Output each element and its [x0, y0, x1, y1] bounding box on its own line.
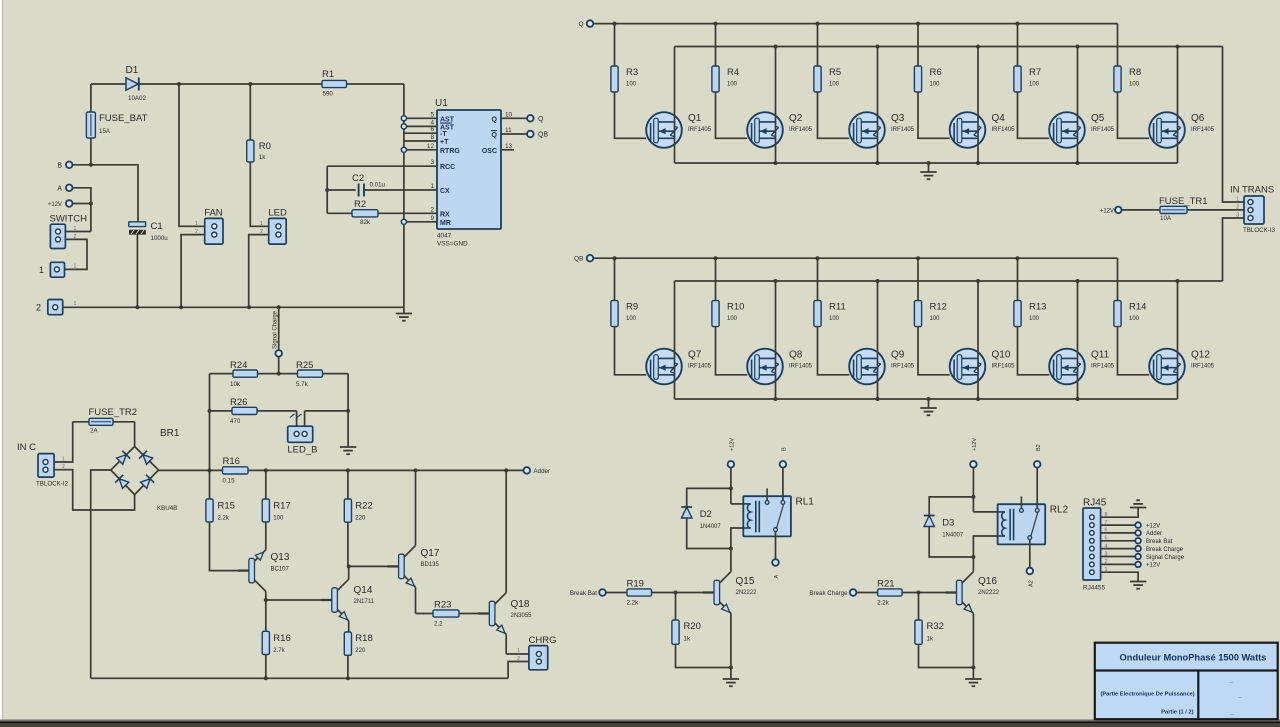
svg-text:A2: A2: [1028, 580, 1034, 587]
wire main rail to Adder: [159, 469, 223, 471]
svg-text:IRF1405: IRF1405: [789, 363, 813, 369]
resistor R2: [327, 199, 437, 226]
svg-text:2: 2: [36, 303, 41, 313]
wire R0 to LED pin1: [250, 162, 268, 226]
junction: [976, 279, 980, 283]
junction: [248, 82, 252, 86]
wire RJ45 pin 5: [1101, 540, 1135, 542]
wire Q18 collector: [505, 470, 507, 592]
junction: [774, 397, 778, 401]
junction: [971, 666, 975, 670]
node Q bus: [578, 20, 593, 28]
transistor Q1: [646, 112, 711, 148]
svg-text:Q2: Q2: [789, 113, 803, 124]
svg-text:2.2k: 2.2k: [218, 516, 230, 522]
svg-text:B2: B2: [1036, 444, 1042, 451]
junction: [208, 409, 212, 413]
svg-text:2: 2: [430, 206, 434, 213]
svg-text:10k: 10k: [230, 381, 241, 388]
svg-text:R19: R19: [627, 579, 644, 590]
ground under emitter: [965, 668, 981, 687]
terminal pin 12: [401, 147, 406, 152]
svg-text:100: 100: [930, 316, 941, 322]
wire Q3 drain-source: [877, 47, 879, 164]
resistor R13: [1014, 258, 1047, 326]
wire Q1 drain-source: [674, 47, 676, 164]
svg-text:RL2: RL2: [1050, 505, 1069, 516]
svg-text:Q18: Q18: [511, 599, 530, 610]
svg-text:1k: 1k: [259, 154, 266, 161]
svg-text:2N2222: 2N2222: [736, 590, 758, 596]
diode D3: [924, 497, 974, 539]
wire Q5 drain-source: [1077, 47, 1079, 164]
wire FAN pin2 down: [181, 235, 205, 308]
svg-text:R21: R21: [877, 579, 894, 590]
wire Q12 drain-source: [1177, 281, 1179, 399]
svg-text:Q13: Q13: [271, 552, 290, 563]
node +12V: [48, 200, 73, 208]
connector IN C: [17, 442, 69, 488]
svg-text:2.2: 2.2: [434, 621, 443, 628]
svg-text:Adder: Adder: [534, 468, 551, 475]
svg-text:C1: C1: [151, 221, 163, 232]
svg-text:Break Charge: Break Charge: [1146, 547, 1184, 553]
svg-text:R12: R12: [930, 302, 947, 313]
resistor R26: [210, 397, 297, 425]
wire Rg to emitter rail: [676, 644, 731, 667]
junction: [916, 256, 920, 260]
svg-text:R5: R5: [829, 67, 841, 78]
svg-text:+12V: +12V: [1146, 523, 1160, 529]
connector CHRG: [517, 635, 556, 670]
wire Q13 to Q14 base: [266, 599, 332, 601]
wire COM contact: [775, 532, 777, 560]
wire source bus: [675, 162, 1178, 164]
node B: [57, 162, 72, 170]
resistor R0: [247, 84, 271, 162]
resistor R6: [914, 24, 941, 92]
svg-text:Partie (1 / 2): Partie (1 / 2): [1161, 710, 1193, 716]
svg-text:100: 100: [1129, 82, 1140, 88]
junction: [976, 161, 980, 165]
wire NO contact: [1036, 468, 1038, 509]
transistor Q14: [321, 579, 375, 621]
resistor R15: [206, 470, 235, 522]
node +12V rl1: [728, 438, 736, 468]
relay RL2: [998, 496, 1069, 544]
svg-text:Q9: Q9: [891, 350, 905, 361]
svg-text:100: 100: [1129, 316, 1140, 322]
resistor R18: [344, 632, 372, 655]
node +12V trans: [1100, 207, 1122, 215]
resistor R9: [611, 258, 638, 326]
node Q out: [527, 115, 544, 123]
svg-text:IN C: IN C: [17, 442, 36, 453]
wire drain bus: [675, 280, 1223, 282]
wire Q9 drain-source: [877, 281, 879, 399]
junction: [674, 591, 678, 595]
junction: [1016, 22, 1020, 26]
svg-text:Q6: Q6: [1191, 113, 1205, 124]
svg-text:-T: -T: [440, 131, 447, 138]
node QB bus: [574, 255, 593, 263]
wire COM contact: [1029, 540, 1031, 568]
junction: [1076, 279, 1080, 283]
node Break Bat rj45: [1135, 538, 1172, 545]
wire signal charge lower: [278, 357, 280, 374]
svg-text:2.2k: 2.2k: [877, 600, 890, 607]
resistor R7: [1014, 24, 1041, 92]
junction: [1076, 161, 1080, 165]
svg-text:--: --: [1230, 712, 1234, 718]
wire fuse to bridge top: [134, 422, 136, 447]
wire RJ45 pin 7: [1101, 524, 1135, 526]
junction: [729, 547, 733, 551]
svg-text:0.15: 0.15: [223, 478, 236, 485]
wire U1 pin 12: [404, 149, 437, 151]
svg-text:15A: 15A: [99, 128, 111, 135]
wire Q13 emitter up: [265, 522, 267, 550]
junction: [264, 676, 268, 680]
junction: [1176, 279, 1180, 283]
svg-text:Adder: Adder: [1146, 531, 1162, 537]
junction: [774, 161, 778, 165]
wire R13 to gate: [1018, 327, 1050, 375]
wire to coil top: [731, 503, 743, 505]
svg-text:100: 100: [1029, 316, 1040, 322]
transistor Q6: [1149, 112, 1214, 148]
svg-text:FAN: FAN: [204, 208, 223, 219]
svg-text:TBLOCK-I2: TBLOCK-I2: [36, 481, 69, 488]
fuse FUSE_TR2: [73, 407, 137, 435]
junction: [613, 22, 617, 26]
svg-text:R17: R17: [273, 501, 290, 512]
wire R8 to gate: [1118, 92, 1150, 138]
resistor R14: [1114, 258, 1147, 326]
wire C1 to rail: [136, 235, 138, 308]
junction: [277, 305, 281, 309]
svg-text:R8: R8: [1129, 67, 1141, 78]
wire C2/R2 left loop: [326, 166, 328, 213]
svg-text:R10: R10: [727, 302, 744, 313]
wire R3 to gate: [615, 92, 647, 138]
junction: [976, 397, 980, 401]
resistor R24: [210, 360, 279, 388]
junction: [179, 305, 183, 309]
svg-text:CX: CX: [440, 188, 450, 195]
wire R9 to gate: [615, 327, 647, 375]
svg-text:IRF1405: IRF1405: [1091, 363, 1115, 369]
svg-text:Q11: Q11: [1091, 350, 1110, 361]
svg-text:R15: R15: [218, 501, 235, 512]
svg-text:10A: 10A: [1160, 215, 1172, 222]
ground on source bus: [920, 163, 936, 179]
wire R12 to gate: [918, 327, 950, 375]
svg-text:FUSE_TR1: FUSE_TR1: [1159, 196, 1208, 207]
svg-text:Q: Q: [492, 132, 498, 139]
svg-text:B: B: [57, 162, 62, 169]
svg-text:2N3055: 2N3055: [511, 613, 533, 619]
svg-text:QB: QB: [538, 132, 548, 139]
svg-text:SWITCH: SWITCH: [50, 214, 88, 225]
connector 1: [39, 262, 77, 277]
svg-text:100: 100: [626, 82, 637, 88]
junction: [927, 397, 931, 401]
svg-text:Q17: Q17: [421, 548, 440, 559]
svg-text:3: 3: [1236, 213, 1239, 219]
svg-text:IRF1405: IRF1405: [891, 363, 915, 369]
svg-text:IRF1405: IRF1405: [1191, 127, 1215, 133]
node +12V rl2: [970, 438, 978, 468]
wire U1 ground stub: [403, 307, 405, 313]
svg-text:LED: LED: [268, 208, 287, 219]
relay RL1: [743, 488, 814, 536]
svg-text:R24: R24: [230, 360, 247, 371]
svg-text:0.01u: 0.01u: [370, 182, 386, 189]
junction: [135, 305, 139, 309]
resistor R17: [262, 470, 291, 522]
svg-text:VSS=GND: VSS=GND: [437, 241, 468, 248]
junction: [774, 45, 778, 49]
junction: [876, 161, 880, 165]
svg-text:+T: +T: [440, 139, 449, 146]
svg-text:IRF1405: IRF1405: [1091, 127, 1115, 133]
junction: [1016, 256, 1020, 260]
svg-text:RJ4455: RJ4455: [1083, 585, 1105, 592]
svg-text:R32: R32: [927, 621, 944, 632]
svg-text:BR1: BR1: [160, 428, 180, 439]
svg-text:82k: 82k: [360, 219, 371, 226]
node Break Charge rj45: [1135, 546, 1183, 553]
junction: [816, 256, 820, 260]
svg-text:R23: R23: [434, 600, 451, 611]
resistor R10: [712, 258, 745, 326]
svg-text:IRF1405: IRF1405: [688, 363, 712, 369]
wire collector: [972, 557, 974, 572]
wire diode anode: [929, 527, 973, 558]
svg-text:R18: R18: [355, 633, 372, 644]
svg-text:2N1711: 2N1711: [354, 599, 375, 605]
wire U1 pin 3 RCC: [327, 165, 437, 167]
svg-text:(Partie Electronique De Puissa: (Partie Electronique De Puissance): [1101, 692, 1195, 698]
ground bottom right: [1130, 582, 1146, 589]
wire Q17 collector: [415, 470, 417, 545]
wire IN C pin2: [54, 470, 135, 510]
svg-text:R26: R26: [230, 397, 247, 408]
wire drain bus to IN TRANS pin1: [1223, 47, 1245, 203]
wire switch pin1: [65, 231, 91, 233]
wire U1 pin10 Q: [501, 117, 527, 119]
svg-text:RX: RX: [440, 211, 450, 218]
junction: [816, 22, 820, 26]
resistor R20: [672, 593, 701, 645]
svg-text:+12V: +12V: [1100, 208, 1114, 214]
LED LED_B: [287, 411, 317, 456]
svg-text:R6: R6: [930, 67, 942, 78]
wire Q11 drain-source: [1077, 281, 1079, 399]
wire Q8 drain-source: [775, 281, 777, 399]
svg-text:IRF1405: IRF1405: [992, 127, 1016, 133]
resistor R3: [611, 24, 638, 92]
junction: [89, 163, 93, 167]
wire +12V down: [730, 468, 732, 504]
svg-text:12: 12: [427, 143, 435, 150]
junction: [876, 45, 880, 49]
wire R15 to Q13 base: [210, 522, 247, 571]
wire Q4 drain-source: [977, 47, 979, 164]
junction: [277, 372, 281, 376]
junction: [876, 279, 880, 283]
ground under U1: [396, 314, 412, 321]
svg-text:590: 590: [323, 91, 334, 98]
wire switch pin2 to conn1: [65, 239, 88, 269]
junction: [89, 202, 93, 206]
wire CHRG pin2 to rail: [508, 662, 529, 679]
junction: [774, 279, 778, 283]
svg-text:10: 10: [505, 111, 513, 118]
svg-text:D1: D1: [126, 65, 139, 76]
svg-text:R22: R22: [355, 501, 372, 512]
svg-text:+12V: +12V: [730, 438, 736, 451]
svg-text:FUSE_TR2: FUSE_TR2: [89, 407, 138, 418]
svg-text:2.7k: 2.7k: [273, 648, 285, 654]
bridge BR1: [111, 428, 180, 512]
svg-text:R13: R13: [1029, 302, 1046, 313]
svg-text:R2: R2: [354, 199, 366, 210]
wire R5 to gate: [818, 92, 850, 138]
wire U1 pin 5: [404, 117, 437, 119]
node B: [780, 447, 788, 468]
svg-text:2.2k: 2.2k: [627, 600, 640, 607]
wire drain bus: [675, 46, 1223, 48]
svg-text:6: 6: [430, 126, 434, 133]
wire U1 pin13 OSC: [501, 149, 514, 151]
junction: [927, 161, 931, 165]
wire emitter: [972, 613, 974, 667]
svg-text:B: B: [782, 447, 788, 451]
transistor Q5: [1049, 112, 1114, 148]
node Break Bat: [570, 589, 606, 597]
svg-text:100: 100: [829, 316, 840, 322]
resistor R23: [416, 600, 487, 628]
svg-text:100: 100: [626, 316, 637, 322]
junction: [346, 676, 350, 680]
svg-text:--: --: [1238, 695, 1242, 701]
wire R22 to collector node: [347, 522, 349, 566]
wire Q18 to CHRG pin1: [506, 653, 529, 655]
junction: [916, 22, 920, 26]
ground under R25: [340, 447, 356, 454]
wire +12V down: [972, 468, 974, 512]
junction: [613, 256, 617, 260]
junction: [976, 45, 980, 49]
resistor R1: [322, 69, 347, 98]
svg-text:Signal Charge: Signal Charge: [273, 310, 279, 349]
svg-text:QB: QB: [574, 256, 583, 263]
svg-text:100: 100: [829, 82, 840, 88]
ground top right: [1130, 500, 1146, 507]
svg-text:R16: R16: [273, 633, 290, 644]
svg-text:CHRG: CHRG: [529, 635, 557, 646]
wire bridge minus: [91, 470, 111, 678]
wire U1 pin 4: [404, 125, 437, 127]
svg-text:Q: Q: [578, 21, 583, 28]
svg-text:100: 100: [930, 82, 941, 88]
transistor Q4: [950, 112, 1015, 148]
node A2: [1027, 568, 1035, 587]
transistor Q16: [945, 572, 999, 614]
wire B to C1: [73, 165, 139, 222]
svg-text:RJ45: RJ45: [1083, 498, 1107, 509]
svg-text:1: 1: [430, 183, 434, 190]
diode D2: [681, 488, 731, 530]
connector SWITCH: [50, 214, 88, 249]
svg-text:5.7k: 5.7k: [296, 381, 309, 388]
junction: [264, 468, 268, 472]
wire RJ45 pin 4: [1101, 548, 1135, 550]
wire diode anode: [687, 518, 731, 549]
svg-text:Q: Q: [538, 116, 544, 123]
wire R16 to bottom rail: [265, 655, 267, 679]
resistor R19: [606, 579, 714, 607]
svg-text:+12V: +12V: [972, 438, 978, 451]
wire bottom rail (GND): [63, 306, 404, 308]
junction: [729, 486, 733, 490]
svg-text:R16: R16: [223, 456, 240, 467]
wire R7 to gate: [1018, 92, 1050, 138]
capacitor C2: [327, 173, 437, 197]
resistor R32: [915, 593, 944, 645]
junction: [1076, 397, 1080, 401]
svg-text:Q12: Q12: [1191, 350, 1210, 361]
wire +12V top rail: [91, 83, 126, 85]
transistor Q9: [849, 349, 914, 385]
junction: [876, 397, 880, 401]
capacitor C1: [129, 221, 168, 242]
wire R14 to gate: [1118, 327, 1150, 375]
svg-text:470: 470: [230, 418, 241, 425]
svg-text:R20: R20: [684, 621, 701, 632]
svg-text:RTRG: RTRG: [440, 148, 460, 155]
transistor Q17: [388, 546, 440, 588]
wire RJ45 pin 3: [1101, 556, 1135, 558]
svg-text:+12V: +12V: [48, 202, 62, 208]
svg-text:2: 2: [1236, 205, 1239, 211]
svg-text:OSC: OSC: [482, 148, 497, 155]
junction: [208, 468, 212, 472]
wire QB drain bus to IN TRANS pin3: [1223, 218, 1245, 281]
wire R4 to gate: [716, 92, 748, 138]
svg-text:2N2222: 2N2222: [978, 590, 1000, 596]
ground under emitter: [723, 668, 739, 687]
wire emitter: [730, 613, 732, 667]
resistor R11: [814, 258, 846, 326]
wire R11 to gate: [818, 327, 850, 375]
wire A: [73, 188, 91, 204]
svg-text:Onduleur MonoPhasé 1500 Watts: Onduleur MonoPhasé 1500 Watts: [1120, 653, 1267, 663]
svg-text:Q14: Q14: [354, 585, 373, 596]
wire Q bus: [593, 23, 1117, 25]
junction: [177, 82, 181, 86]
svg-text:1000u: 1000u: [151, 235, 169, 242]
svg-text:IRF1405: IRF1405: [1191, 363, 1215, 369]
transistor Q3: [849, 112, 914, 148]
wire Q14 emitter: [348, 621, 350, 632]
wire to coil top: [973, 511, 997, 513]
svg-text:TBLOCK-I3: TBLOCK-I3: [1243, 227, 1276, 234]
wire QB bus: [593, 257, 1117, 259]
wire U1 pin 8: [404, 140, 437, 142]
